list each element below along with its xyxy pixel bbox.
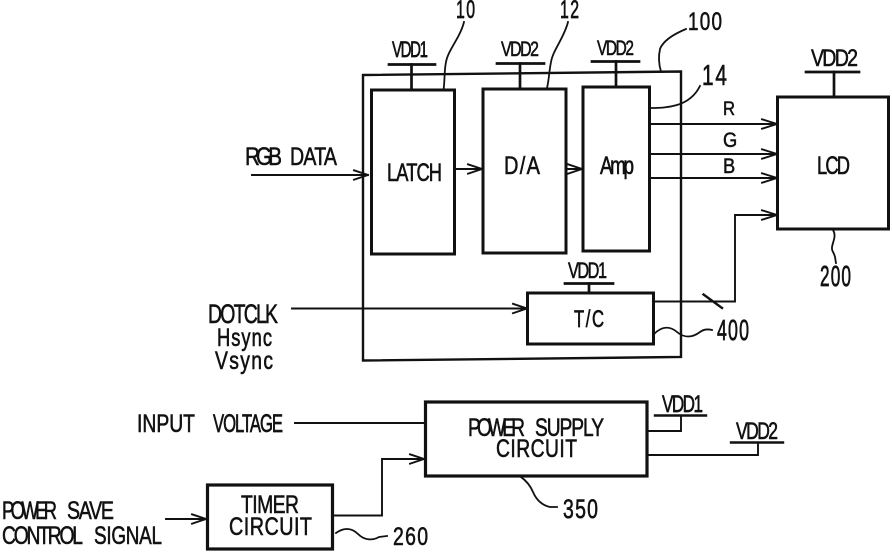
wire B from Amp to LCD — [650, 177, 777, 179]
wire R from Amp to LCD — [650, 123, 777, 125]
leader squiggle 200 — [832, 230, 836, 263]
svg-text:SIGNAL: SIGNAL — [94, 521, 162, 549]
svg-text:CIRCUIT: CIRCUIT — [496, 434, 577, 462]
svg-text:D/A: D/A — [504, 151, 541, 180]
leader squiggle 400 — [654, 328, 712, 337]
svg-text:CONTROL: CONTROL — [2, 521, 83, 549]
svg-text:Amp: Amp — [600, 151, 634, 179]
wire T/C to LCD — [654, 215, 776, 302]
svg-text:VDD2: VDD2 — [501, 37, 539, 61]
svg-text:12: 12 — [560, 0, 579, 24]
svg-text:B: B — [723, 155, 735, 178]
svg-text:VDD2: VDD2 — [736, 418, 778, 444]
wire POWER SAVE into timer — [166, 518, 205, 520]
LCD block 200 — [778, 97, 889, 229]
D/A block 12 — [483, 89, 566, 253]
svg-text:VDD2: VDD2 — [811, 44, 858, 71]
svg-text:VDD1: VDD1 — [568, 259, 607, 284]
svg-text:SAVE: SAVE — [67, 495, 114, 524]
wire G from Amp to LCD — [650, 153, 777, 155]
T/C block 400 — [528, 293, 654, 344]
svg-text:T/C: T/C — [574, 306, 604, 333]
amp block 14 — [583, 87, 650, 251]
svg-text:RGB: RGB — [245, 142, 282, 171]
power supply circuit block 350 — [426, 402, 648, 476]
timer circuit block 260 — [208, 485, 333, 549]
svg-text:VDD2: VDD2 — [597, 36, 634, 60]
svg-text:R: R — [723, 98, 735, 119]
svg-text:G: G — [723, 129, 737, 152]
leader squiggle 100 — [659, 29, 686, 72]
wire LATCH to D/A — [455, 168, 482, 170]
svg-text:LCD: LCD — [817, 151, 850, 180]
svg-text:Vsync: Vsync — [215, 347, 273, 375]
VDD2 symbol above LCD — [806, 72, 859, 97]
svg-text:VDD1: VDD1 — [662, 391, 703, 417]
latch block 10 — [372, 90, 455, 254]
svg-text:CIRCUIT: CIRCUIT — [229, 512, 312, 541]
wire INPUT VOLTAGE into power supply — [295, 422, 425, 424]
svg-text:14: 14 — [702, 60, 727, 92]
wire DOTCLK into T/C — [292, 308, 526, 310]
svg-text:VDD1: VDD1 — [392, 38, 428, 63]
leader squiggle 350 — [521, 477, 557, 507]
VDD1 symbol above LATCH — [389, 65, 435, 91]
svg-text:350: 350 — [563, 494, 598, 524]
leader squiggle 14 — [651, 86, 700, 108]
VDD2 symbol above Amp — [592, 62, 639, 88]
wire VDD2 output of power supply — [647, 443, 758, 456]
wire TIMER to power supply — [333, 459, 422, 516]
wire RGB DATA into LATCH — [252, 174, 367, 176]
svg-text:POWER: POWER — [2, 496, 57, 525]
svg-text:260: 260 — [393, 523, 428, 551]
svg-text:10: 10 — [456, 0, 475, 24]
svg-text:INPUT: INPUT — [137, 410, 195, 438]
wire D/A to Amp — [566, 168, 581, 170]
svg-text:LATCH: LATCH — [387, 158, 442, 187]
svg-text:100: 100 — [688, 7, 722, 35]
svg-text:400: 400 — [717, 316, 749, 347]
VDD2 bar at power supply output — [731, 441, 783, 443]
outer block 100 — [363, 72, 681, 361]
svg-text:DATA: DATA — [290, 141, 338, 170]
svg-text:200: 200 — [820, 261, 851, 292]
VDD2 symbol above D/A — [497, 64, 544, 90]
leader squiggle 12 — [547, 22, 568, 88]
leader squiggle 260 — [336, 529, 387, 539]
leader squiggle 10 — [444, 22, 465, 90]
svg-text:VOLTAGE: VOLTAGE — [213, 410, 283, 438]
VDD1 symbol above T/C — [565, 284, 613, 294]
bus slash on T/C-LCD wire — [704, 295, 723, 309]
wire VDD1 output of power supply — [647, 416, 681, 432]
VDD1 bar at power supply output — [655, 414, 706, 416]
